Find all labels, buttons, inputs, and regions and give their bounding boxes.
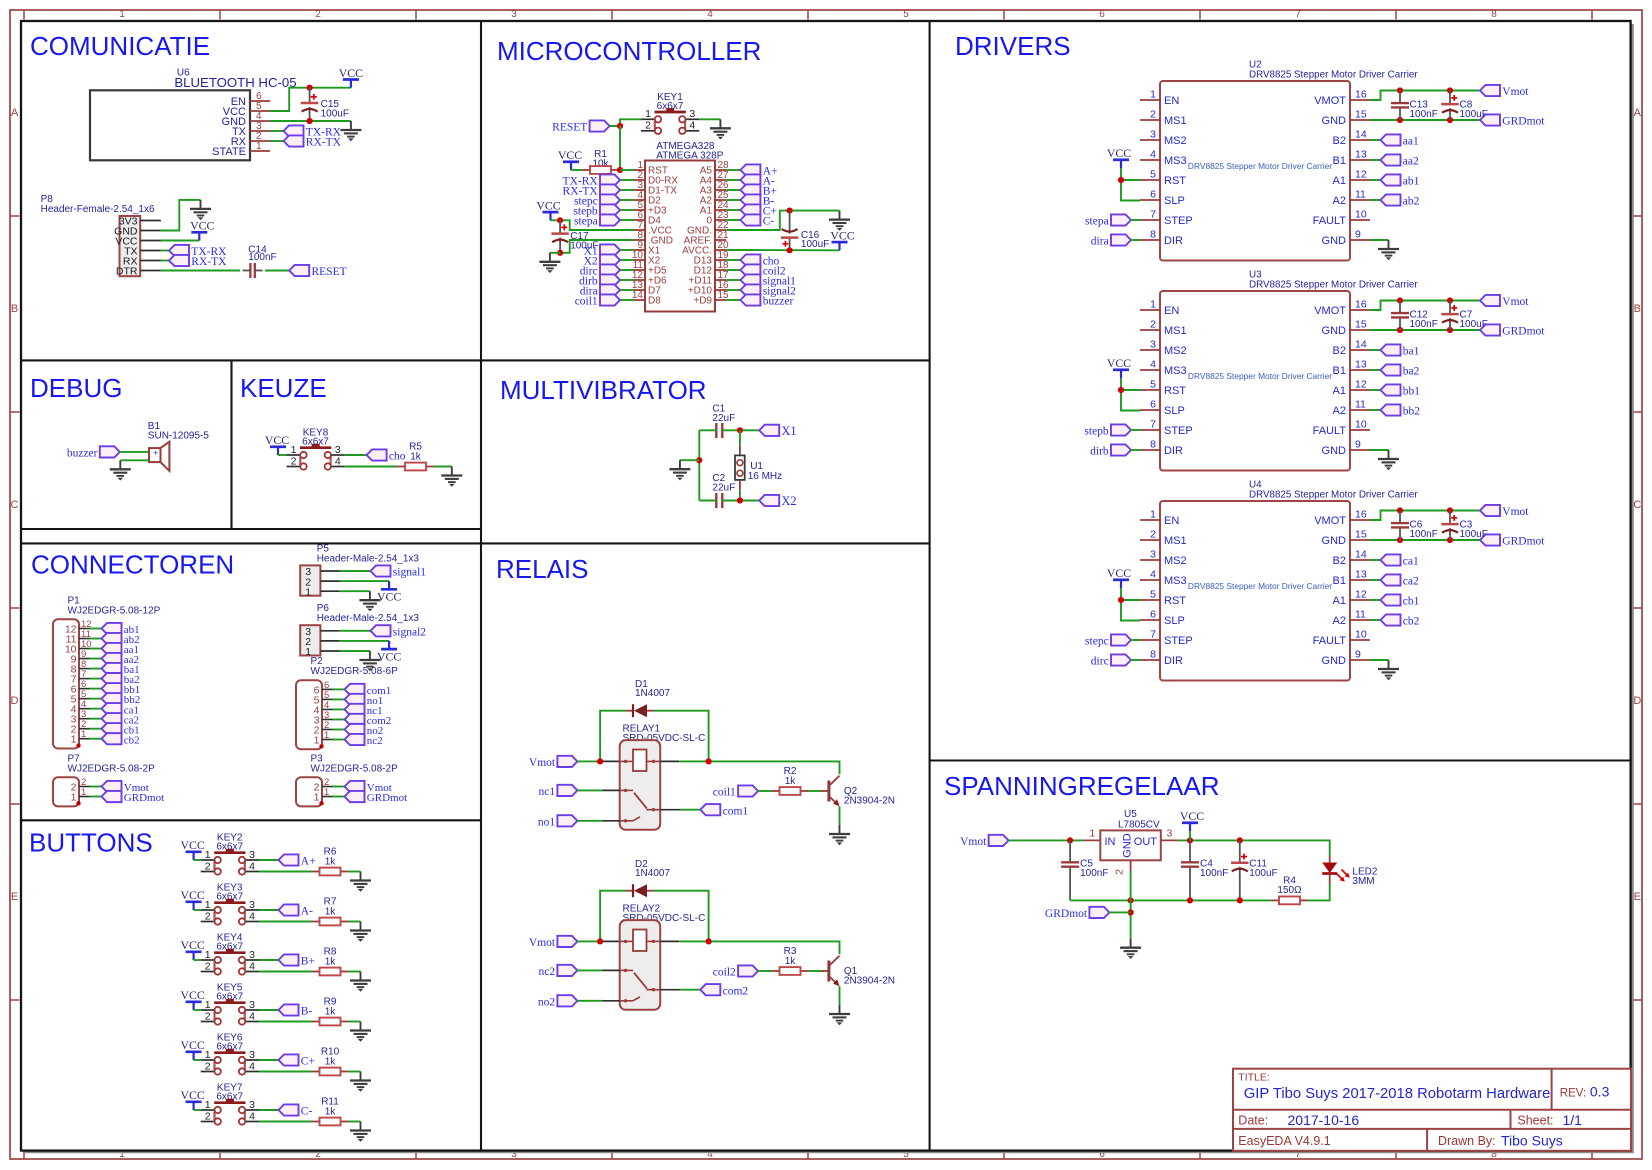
- svg-text:1: 1: [1150, 89, 1156, 101]
- svg-text:1: 1: [1089, 828, 1095, 840]
- svg-text:1: 1: [305, 646, 311, 658]
- net flag RESET at KEY1: [552, 120, 609, 133]
- junction: [1397, 117, 1403, 123]
- junction: [1067, 837, 1073, 843]
- capacitor C1 22uF: [712, 404, 735, 439]
- svg-text:A1: A1: [1333, 595, 1346, 607]
- svg-text:1: 1: [1150, 299, 1156, 311]
- svg-text:3MM: 3MM: [1352, 876, 1374, 887]
- svg-text:ca2: ca2: [1403, 576, 1419, 588]
- svg-text:KEUZE: KEUZE: [240, 373, 327, 403]
- svg-text:MICROCONTROLLER: MICROCONTROLLER: [497, 36, 761, 66]
- svg-text:C: C: [11, 499, 19, 511]
- svg-text:100uF: 100uF: [570, 240, 598, 251]
- junction: [617, 167, 623, 173]
- net flag Vmot: [1480, 85, 1529, 98]
- junction: [597, 758, 603, 764]
- svg-text:1: 1: [256, 141, 262, 152]
- svg-text:Tibo Suys: Tibo Suys: [1501, 1133, 1563, 1149]
- junction: [1397, 537, 1403, 543]
- svg-text:D: D: [11, 695, 19, 707]
- net flag B+: [279, 954, 315, 967]
- svg-text:3: 3: [689, 108, 695, 120]
- wire bottom rail: [1070, 899, 1271, 901]
- junction: [696, 457, 702, 463]
- svg-text:C: C: [1633, 499, 1641, 511]
- wire KEY3 pin3 to A-: [259, 909, 279, 911]
- svg-text:100uF: 100uF: [1460, 529, 1488, 540]
- net flag C-: [726, 219, 740, 221]
- net flag cb2: [1370, 619, 1381, 621]
- svg-text:2: 2: [1150, 319, 1156, 331]
- svg-text:stepa: stepa: [574, 216, 598, 228]
- connector P8 Header-Female-2.54_1x6: [41, 194, 161, 278]
- svg-text:A1: A1: [1333, 385, 1346, 397]
- net flag dira: [620, 289, 634, 291]
- capacitor C7 100uF: [1441, 301, 1488, 331]
- wire VCC to KEY2: [194, 859, 201, 861]
- svg-text:B1: B1: [1333, 365, 1346, 377]
- svg-text:DRV8825 Stepper Motor Driver C: DRV8825 Stepper Motor Driver Carrier: [1188, 161, 1332, 171]
- svg-text:GRDmot: GRDmot: [367, 792, 407, 804]
- svg-text:13: 13: [1355, 149, 1367, 161]
- net flag com1: [333, 688, 345, 690]
- wire dira to DIR: [1131, 239, 1140, 241]
- svg-text:1: 1: [314, 735, 320, 747]
- ground: [350, 1072, 371, 1092]
- svg-text:1: 1: [645, 108, 651, 120]
- power VCC: [536, 199, 560, 221]
- svg-text:16: 16: [1355, 509, 1367, 521]
- capacitor C14 100nF: [243, 244, 277, 278]
- svg-text:CONNECTOREN: CONNECTOREN: [31, 550, 234, 580]
- svg-text:4: 4: [1150, 149, 1156, 161]
- wire KEY3 pin4 to R7: [259, 921, 312, 923]
- capacitor C8 100uF: [1441, 91, 1488, 121]
- wire P8 VCC: [161, 240, 199, 242]
- svg-text:Vmot: Vmot: [1502, 86, 1529, 98]
- svg-text:Drawn By:: Drawn By:: [1438, 1134, 1496, 1148]
- power VCC: [180, 938, 204, 960]
- wire VCC to KEY3: [194, 909, 201, 911]
- svg-text:1N4007: 1N4007: [635, 868, 670, 879]
- resistor R9 1k: [312, 997, 349, 1026]
- svg-text:3: 3: [1150, 549, 1156, 561]
- net flag stepc: [620, 199, 634, 201]
- power VCC: [558, 148, 582, 170]
- svg-text:Sheet:: Sheet:: [1517, 1114, 1553, 1128]
- svg-text:GND: GND: [1322, 655, 1347, 667]
- net flag Vmot: [333, 786, 345, 788]
- svg-text:VCC: VCC: [180, 988, 204, 1002]
- svg-text:VCC: VCC: [1107, 146, 1131, 160]
- wire multivibrator left: [698, 430, 700, 500]
- wire R1 to ATMEGA RST: [620, 169, 634, 171]
- svg-text:DRV8825 Stepper Motor Driver C: DRV8825 Stepper Motor Driver Carrier: [1188, 371, 1332, 381]
- power VCC: [180, 838, 204, 860]
- svg-text:GRDmot: GRDmot: [1502, 326, 1545, 338]
- wire R10 to ground: [349, 1071, 361, 1073]
- net flag bb1: [1370, 389, 1381, 391]
- junction: [1447, 327, 1453, 333]
- power VCC: [180, 888, 204, 910]
- wire U5 OUT rail: [1179, 840, 1330, 856]
- ground: [539, 253, 560, 273]
- wire VCC to KEY5: [194, 1009, 201, 1011]
- regulator U5 L7805CV: [1083, 809, 1178, 875]
- svg-text:DRV8825 Stepper Motor Driver C: DRV8825 Stepper Motor Driver Carrier: [1188, 581, 1332, 591]
- ground: [1120, 939, 1141, 959]
- resistor R11 1k: [312, 1097, 349, 1126]
- wire LED to bottom rail: [1308, 884, 1330, 900]
- wire KEY1 pin3 to ground: [699, 118, 720, 120]
- svg-text:4: 4: [249, 960, 255, 972]
- svg-text:1: 1: [205, 899, 211, 911]
- net flag ca2: [90, 718, 102, 720]
- svg-text:Header-Female-2.54_1x6: Header-Female-2.54_1x6: [41, 204, 155, 215]
- net flag com1: [700, 804, 748, 817]
- wire KEY7 pin3 to C-: [259, 1109, 279, 1111]
- wire pin1 to ground: [340, 590, 370, 592]
- ground: [350, 972, 371, 992]
- svg-text:1k: 1k: [325, 1056, 337, 1067]
- power VCC: [180, 1088, 204, 1110]
- svg-text:B1: B1: [1333, 575, 1346, 587]
- svg-text:buzzer: buzzer: [763, 296, 794, 308]
- relay RELAY2 SRD-05VDC-SL-C: [620, 904, 706, 1010]
- svg-text:12: 12: [1355, 589, 1367, 601]
- svg-text:3: 3: [335, 444, 341, 456]
- resistor R5 1k: [397, 442, 434, 471]
- wire R11 to ground: [349, 1121, 361, 1123]
- net flag cho: [367, 449, 406, 462]
- svg-text:1: 1: [305, 586, 311, 598]
- resistor R8 1k: [312, 947, 349, 976]
- svg-text:5: 5: [1150, 379, 1156, 391]
- svg-text:Vmot: Vmot: [1502, 296, 1529, 308]
- ground: [829, 211, 850, 231]
- svg-text:bb2: bb2: [1403, 406, 1421, 418]
- wire GND pin9 to ground: [1370, 239, 1389, 241]
- power VCC inverted: [377, 581, 401, 604]
- svg-text:MULTIVIBRATOR: MULTIVIBRATOR: [500, 375, 707, 405]
- svg-text:B1: B1: [1333, 155, 1346, 167]
- pushbutton KEY2 6x6x7: [201, 833, 259, 875]
- svg-text:2: 2: [205, 1110, 211, 1122]
- wire no2 to relay: [577, 1000, 602, 1002]
- svg-text:EN: EN: [1164, 95, 1179, 107]
- wire VCC to KEY6: [194, 1059, 201, 1061]
- net flag nc2: [333, 739, 345, 741]
- net flag aa2: [90, 658, 102, 660]
- svg-text:signal1: signal1: [393, 567, 426, 579]
- pushbutton KEY8 6x6x7: [287, 428, 345, 470]
- svg-text:1: 1: [71, 792, 77, 804]
- svg-text:STEP: STEP: [1164, 635, 1193, 647]
- svg-text:aa2: aa2: [1403, 156, 1419, 168]
- svg-text:WJ2EDGR-5.08-6P: WJ2EDGR-5.08-6P: [311, 666, 399, 677]
- svg-text:7: 7: [1295, 9, 1301, 20]
- connector P2 WJ2EDGR-5.08-6P: [296, 656, 398, 749]
- power VCC: [830, 229, 854, 251]
- IC U9 ATMEGA328: [632, 141, 729, 312]
- svg-text:DRV8825 Stepper Motor Driver C: DRV8825 Stepper Motor Driver Carrier: [1249, 70, 1418, 81]
- junction: [1447, 297, 1453, 303]
- junction: [557, 250, 563, 256]
- capacitor C2 22uF: [712, 473, 735, 508]
- wire VCC to RST and SLP: [1121, 168, 1140, 201]
- svg-text:Vmot: Vmot: [529, 757, 556, 769]
- svg-text:16: 16: [1355, 89, 1367, 101]
- svg-text:14: 14: [1355, 129, 1367, 141]
- svg-text:stepc: stepc: [1085, 636, 1109, 648]
- svg-text:10: 10: [1355, 419, 1367, 431]
- capacitor C12 100nF: [1391, 301, 1438, 331]
- connector P5 Header-Male-2.54_1x3: [300, 543, 419, 598]
- net flag dira: [1091, 234, 1131, 247]
- svg-text:coil1: coil1: [713, 787, 736, 799]
- svg-text:aa1: aa1: [1403, 136, 1419, 148]
- svg-text:STATE: STATE: [212, 146, 246, 158]
- svg-text:DRV8825 Stepper Motor Driver C: DRV8825 Stepper Motor Driver Carrier: [1249, 280, 1418, 291]
- wire R3 to transistor base: [809, 970, 823, 972]
- svg-text:VCC: VCC: [1107, 356, 1131, 370]
- junction: [787, 208, 793, 214]
- net flag aa1: [1370, 139, 1381, 141]
- wire KEY6 pin3 to C+: [259, 1059, 279, 1061]
- net flag Vmot: [529, 936, 578, 949]
- ground: [350, 1022, 371, 1042]
- net flag GRDmot: [333, 796, 345, 798]
- svg-text:11: 11: [1355, 609, 1366, 621]
- svg-text:MS2: MS2: [1164, 555, 1187, 567]
- svg-text:A1: A1: [1333, 175, 1346, 187]
- svg-text:nc1: nc1: [538, 786, 555, 798]
- svg-text:RST: RST: [1164, 595, 1186, 607]
- wire diode right to coil rail: [654, 711, 709, 762]
- capacitor C17 100uF: [551, 220, 598, 253]
- connector P1 WJ2EDGR-5.08-12P: [53, 595, 161, 748]
- svg-text:1: 1: [119, 9, 125, 20]
- svg-text:FAULT: FAULT: [1313, 635, 1347, 647]
- net flag Vmot: [529, 756, 578, 769]
- wire pin1 to ground: [340, 650, 370, 652]
- junction: [737, 497, 743, 503]
- svg-text:VMOT: VMOT: [1314, 305, 1346, 317]
- svg-text:VMOT: VMOT: [1314, 515, 1346, 527]
- svg-text:6: 6: [1099, 9, 1105, 20]
- net flag cho: [726, 259, 740, 261]
- svg-text:100uF: 100uF: [1460, 109, 1488, 120]
- junction: [706, 938, 712, 944]
- svg-text:cb2: cb2: [1403, 616, 1420, 628]
- svg-text:A-: A-: [301, 906, 313, 918]
- svg-text:100nF: 100nF: [1410, 319, 1438, 330]
- power VCC: [1107, 566, 1131, 588]
- net flag dirc: [1091, 654, 1131, 667]
- wire GRDmot to GND net: [1109, 911, 1130, 913]
- svg-text:GIP Tibo Suys 2017-2018 Robota: GIP Tibo Suys 2017-2018 Robotarm Hardwar…: [1244, 1086, 1551, 1102]
- svg-text:VCC: VCC: [180, 1088, 204, 1102]
- svg-text:A2: A2: [1333, 615, 1346, 627]
- svg-text:bb1: bb1: [1403, 386, 1421, 398]
- capacitor C5 100nF: [1061, 840, 1108, 900]
- svg-text:0.3: 0.3: [1590, 1084, 1610, 1100]
- svg-text:cb2: cb2: [124, 734, 140, 746]
- wire VCC to KEY8: [278, 454, 287, 456]
- svg-text:EN: EN: [1164, 515, 1179, 527]
- wire KEY2 pin4 to R6: [259, 871, 312, 873]
- svg-text:RST: RST: [1164, 175, 1186, 187]
- svg-text:DIR: DIR: [1164, 445, 1183, 457]
- svg-text:BUTTONS: BUTTONS: [29, 828, 153, 858]
- capacitor C4 100nF: [1181, 840, 1228, 900]
- net flag stepa: [1085, 214, 1131, 227]
- svg-text:DTR: DTR: [116, 266, 138, 278]
- wire R5 to ground: [434, 466, 452, 468]
- net flag A+: [726, 169, 740, 171]
- svg-text:WJ2EDGR-5.08-2P: WJ2EDGR-5.08-2P: [68, 763, 156, 774]
- net flag Vmot: [960, 835, 1009, 848]
- ground: [350, 872, 371, 892]
- svg-text:1: 1: [324, 787, 329, 798]
- wire RESET to KEY1 pin1: [610, 119, 641, 126]
- wire GND rail: [1370, 539, 1480, 541]
- svg-text:1: 1: [205, 999, 211, 1011]
- net flag coil1: [620, 299, 634, 301]
- svg-text:SLP: SLP: [1164, 615, 1185, 627]
- svg-text:BLUETOOTH HC-05: BLUETOOTH HC-05: [174, 75, 296, 90]
- svg-text:2: 2: [205, 960, 211, 972]
- junction: [1447, 87, 1453, 93]
- wire VCC to RST and SLP: [1121, 378, 1140, 411]
- wire U6 VCC net: [270, 88, 351, 111]
- svg-text:12: 12: [1355, 169, 1367, 181]
- net flag ab1: [1370, 179, 1381, 181]
- svg-text:ca1: ca1: [1403, 556, 1419, 568]
- net flag coil2: [726, 269, 740, 271]
- power VCC: [1180, 809, 1204, 831]
- net flag C+: [279, 1054, 315, 1067]
- svg-text:2: 2: [1114, 869, 1126, 875]
- net flag stepb: [620, 209, 634, 211]
- wire R8 to ground: [349, 971, 361, 973]
- svg-text:stepa: stepa: [1085, 216, 1109, 228]
- svg-text:A2: A2: [1333, 195, 1346, 207]
- svg-text:8: 8: [1150, 439, 1156, 451]
- svg-text:100nF: 100nF: [1410, 529, 1438, 540]
- svg-text:DEBUG: DEBUG: [30, 373, 122, 403]
- net flag ca2: [1370, 579, 1381, 581]
- wire stepc to STEP: [1131, 639, 1140, 641]
- wire coil1 to R2: [758, 790, 771, 792]
- net flag GRDmot: [1480, 324, 1545, 337]
- wire KEY4 pin4 to R8: [259, 971, 312, 973]
- resistor R2 1k: [772, 766, 809, 795]
- svg-text:16 MHz: 16 MHz: [748, 471, 782, 482]
- junction: [1447, 117, 1453, 123]
- svg-text:VCC: VCC: [180, 938, 204, 952]
- svg-text:VCC: VCC: [1180, 809, 1204, 823]
- net flag ab2: [1370, 199, 1381, 201]
- svg-text:3: 3: [249, 1049, 255, 1061]
- svg-text:100nF: 100nF: [1200, 868, 1228, 879]
- svg-text:4: 4: [249, 910, 255, 922]
- wire KEY8 pin3 to cho: [345, 454, 367, 456]
- transistor Q1 2N3904-2N: [821, 956, 895, 987]
- net flag B-: [279, 1004, 313, 1017]
- svg-text:2: 2: [205, 1010, 211, 1022]
- net flag nc1: [333, 708, 345, 710]
- net flag B+: [726, 189, 740, 191]
- svg-text:1: 1: [81, 729, 86, 740]
- svg-text:2017-10-16: 2017-10-16: [1288, 1112, 1360, 1128]
- svg-text:SPANNINGREGELAAR: SPANNINGREGELAAR: [944, 771, 1219, 801]
- net flag X1: [759, 424, 796, 438]
- net flag GRDmot: [1045, 907, 1109, 920]
- svg-text:buzzer: buzzer: [67, 448, 98, 460]
- svg-text:B-: B-: [301, 1006, 313, 1018]
- net flag RX-TX at U6.RX: [270, 140, 284, 142]
- svg-text:VCC: VCC: [1107, 566, 1131, 580]
- svg-text:MS1: MS1: [1164, 535, 1187, 547]
- svg-text:8: 8: [1491, 9, 1497, 20]
- svg-text:VCC: VCC: [377, 649, 401, 663]
- svg-text:RX-TX: RX-TX: [191, 256, 227, 268]
- svg-text:dirb: dirb: [1090, 446, 1109, 458]
- svg-text:1N4007: 1N4007: [635, 688, 670, 699]
- svg-text:VCC: VCC: [830, 229, 854, 243]
- svg-text:2: 2: [291, 455, 297, 467]
- junction: [1118, 387, 1124, 393]
- svg-text:com1: com1: [723, 805, 749, 817]
- net flag bb1: [90, 688, 102, 690]
- wire GND rail: [1370, 119, 1480, 121]
- wire R2 to transistor base: [809, 790, 823, 792]
- net flag bb2: [90, 698, 102, 700]
- svg-text:RX-TX: RX-TX: [306, 137, 342, 149]
- svg-text:1k: 1k: [325, 906, 337, 917]
- svg-text:3: 3: [249, 999, 255, 1011]
- wire R9 to ground: [349, 1021, 361, 1023]
- svg-text:RESET: RESET: [552, 122, 587, 134]
- svg-text:VCC: VCC: [339, 66, 363, 80]
- svg-text:FAULT: FAULT: [1313, 425, 1347, 437]
- wire VCC to RST and SLP: [1121, 588, 1140, 621]
- svg-text:3: 3: [249, 949, 255, 961]
- wire KEY6 pin4 to R10: [259, 1071, 312, 1073]
- svg-text:10: 10: [1355, 629, 1367, 641]
- IC U2 DRV8825 Stepper Motor Driver Carrier: [1140, 60, 1418, 261]
- svg-text:1: 1: [205, 849, 211, 861]
- svg-text:15: 15: [1355, 109, 1367, 121]
- svg-text:RELAIS: RELAIS: [496, 554, 589, 584]
- svg-text:no2: no2: [538, 996, 556, 1008]
- svg-text:1k: 1k: [325, 1006, 337, 1017]
- ground: [359, 651, 380, 671]
- wire RESET down to R1: [619, 126, 621, 170]
- junction: [1237, 837, 1243, 843]
- svg-text:STEP: STEP: [1164, 215, 1193, 227]
- net flag B-: [726, 199, 740, 201]
- net flag cb2: [90, 738, 102, 740]
- svg-text:1: 1: [205, 1049, 211, 1061]
- junction: [1447, 537, 1453, 543]
- capacitor C13 100nF: [1391, 91, 1438, 121]
- wire speaker to ground: [120, 459, 149, 461]
- wire VCC to R1: [571, 169, 582, 171]
- svg-text:Header-Male-2.54_1x3: Header-Male-2.54_1x3: [317, 553, 420, 564]
